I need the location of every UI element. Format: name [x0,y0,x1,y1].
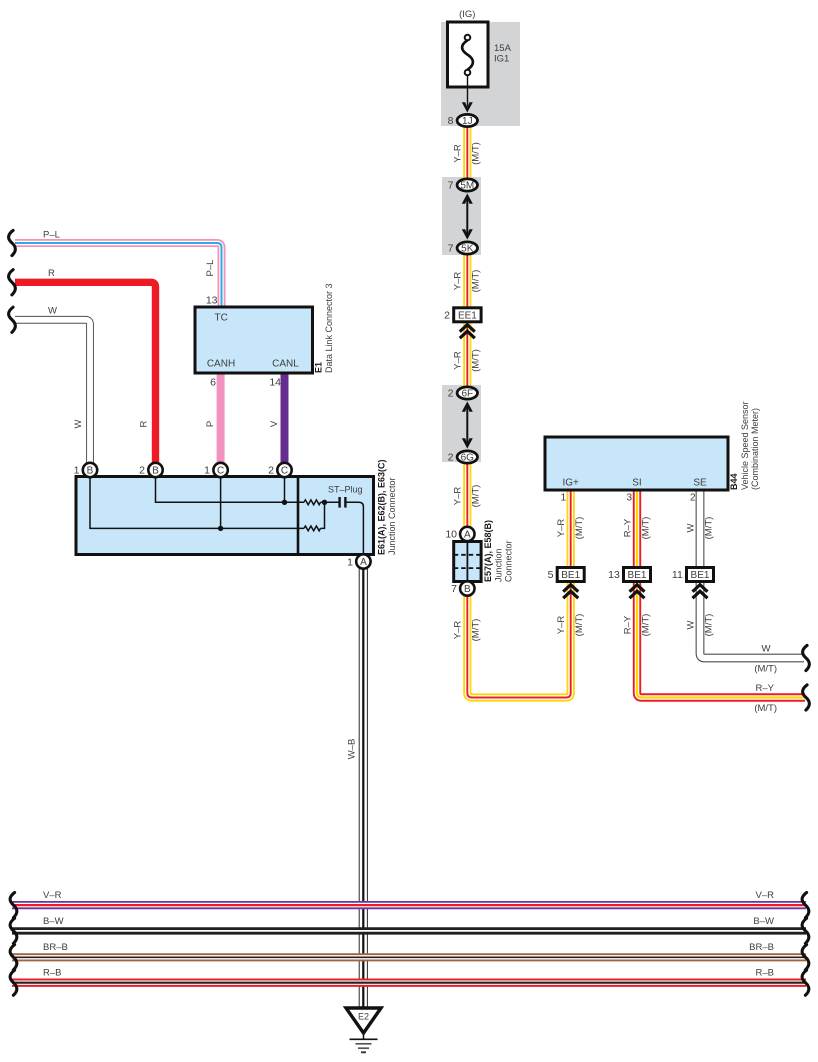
svg-text:(M/T): (M/T) [703,517,714,540]
svg-text:Vehicle Speed Sensor: Vehicle Speed Sensor [740,401,750,490]
svg-text:7: 7 [448,180,454,192]
label Y-R (M/T) seg3 [453,349,482,372]
internal divider [297,477,300,555]
connector EE1 [444,308,481,322]
pin circle B2 [139,463,163,477]
svg-text:(M/T): (M/T) [574,614,585,637]
internal wires (net B2/C2 and net B1/C1 to ST-plug) [90,477,363,554]
wire Y-R (junction B down, U-turn to BE1 5) [467,581,570,698]
svg-text:CANL: CANL [272,359,299,370]
svg-text:Junction: Junction [494,548,504,582]
svg-text:E2: E2 [358,1012,369,1022]
svg-text:P–L: P–L [205,260,216,277]
connector BE1 (5) [548,568,585,582]
svg-text:R–B: R–B [43,968,61,979]
svg-text:B: B [87,466,94,477]
svg-text:7: 7 [451,583,457,595]
svg-text:1: 1 [74,465,80,477]
pin circle A (junction bottom) [347,554,370,568]
resistor R2 [304,526,321,531]
label IG+ SI SE [562,478,707,489]
junction dot mid [322,500,327,505]
connector 5M [448,179,478,192]
chevron below EE1 [460,325,475,339]
label R-Y (M/T) right edge [754,683,777,714]
svg-text:5: 5 [548,569,554,581]
svg-text:B44: B44 [729,473,739,490]
bus labels right [749,890,774,979]
svg-text:R–Y: R–Y [622,518,633,537]
svg-text:2: 2 [139,465,145,477]
connector 6G [448,451,478,464]
svg-text:(M/T): (M/T) [754,703,777,714]
svg-text:IG+: IG+ [562,478,579,489]
connector 1J [448,114,478,127]
label Y-R (M/T) seg1 [453,142,482,165]
svg-text:B–W: B–W [753,916,774,927]
svg-text:ST–Plug: ST–Plug [328,485,363,495]
inter-connector arrows 6F-6G [462,401,473,448]
junction dot C2 [282,500,287,505]
shaded block (6F/6G) [442,385,481,462]
label Y-R (M/T) seg4 [453,485,482,508]
braces left bus [10,893,17,918]
svg-text:15A: 15A [494,43,512,54]
label W (M/T) right edge [754,644,777,675]
svg-text:Y–R: Y–R [453,272,464,291]
svg-text:13: 13 [608,569,620,581]
DLC3 box E1 [195,307,313,373]
label B44 Vehicle Speed Sensor (Combination Meter) [729,401,760,490]
svg-text:E57(A), E58(B): E57(A), E58(B) [483,520,493,582]
svg-text:V: V [269,420,280,427]
arrow into 1J [462,102,473,112]
wire R (left edge to junction B2) [15,282,156,463]
svg-text:1: 1 [347,557,353,569]
label E1 Data Link Connector 3 [314,283,335,373]
label W (M/T) below BE1 11 [685,614,714,637]
svg-text:6: 6 [210,377,216,389]
svg-text:8: 8 [448,115,454,127]
brace left P-L [9,230,16,255]
svg-text:(M/T): (M/T) [471,270,482,293]
svg-text:5K: 5K [461,244,474,255]
svg-text:A: A [360,557,367,568]
svg-text:W: W [762,644,771,655]
svg-text:IG1: IG1 [494,54,509,65]
svg-text:BE1: BE1 [628,570,647,581]
svg-text:BE1: BE1 [561,570,580,581]
wire W (left edge to junction B1) [15,320,90,463]
svg-text:13: 13 [206,295,218,307]
chevron below BE1 5 [563,585,578,599]
svg-text:P: P [205,421,216,427]
resistor R1 [304,500,321,505]
svg-text:CANH: CANH [207,359,235,370]
capacitor ST-plug [340,497,346,508]
label Y-R (M/T) under IG+ [556,517,585,540]
svg-text:A: A [464,530,471,541]
svg-text:W–B: W–B [347,739,358,760]
svg-text:R: R [48,268,55,279]
svg-text:11: 11 [672,569,683,581]
svg-text:W: W [685,523,696,532]
brace right W [803,645,810,670]
svg-text:(IG): (IG) [459,9,475,20]
svg-text:Junction Connector: Junction Connector [387,477,397,555]
wire Y-R (B44 IG+ to BE1 5) [567,490,575,597]
shaded relay block (fuse/1J) [441,22,520,126]
label Y-R (M/T) seg5 [453,619,482,642]
svg-text:(M/T): (M/T) [471,619,482,642]
svg-text:Y–R: Y–R [556,519,567,538]
bus wire R-B [12,979,806,987]
wire Y-R (1J to 5M) [463,127,471,180]
connector 5K [448,242,478,255]
pin circle C1 [204,463,228,477]
svg-text:Y–R: Y–R [453,351,464,370]
chevron below BE1 11 [693,585,708,599]
label TC CANH CANL [207,313,299,370]
svg-text:Y–R: Y–R [556,616,567,635]
label W (M/T) under SE [685,517,714,540]
svg-text:B: B [464,584,471,595]
svg-text:Data Link Connector 3: Data Link Connector 3 [324,283,334,373]
svg-text:R: R [139,420,150,427]
svg-text:W: W [685,620,696,629]
svg-text:BE1: BE1 [691,570,710,581]
wire R-Y (B44 SI to right edge) [637,490,805,698]
B44 vehicle speed sensor box [545,437,728,490]
svg-text:10: 10 [445,529,457,541]
shaded block (5M/5K) [442,177,481,255]
svg-text:3: 3 [626,493,632,504]
svg-text:(M/T): (M/T) [703,614,714,637]
chevron below BE1 13 [630,585,645,599]
svg-text:2: 2 [448,452,454,464]
svg-text:E1: E1 [314,362,324,373]
svg-text:2: 2 [448,388,454,400]
wire W (B44 SE to right edge) [700,490,804,658]
svg-text:(M/T): (M/T) [754,664,777,675]
brace left W [9,307,16,332]
ground E2 [346,1008,381,1052]
label E61(A), E62(B), E63(C) Junction Connector [377,459,398,555]
svg-text:2: 2 [690,493,696,504]
connector BE1 (13) [608,568,650,582]
svg-text:C: C [217,466,224,477]
junction dot C1 [218,526,223,531]
bus wire B-W [12,927,806,934]
svg-text:Y–R: Y–R [453,144,464,163]
svg-text:1: 1 [560,493,566,504]
svg-text:R–Y: R–Y [756,683,775,694]
svg-text:(M/T): (M/T) [471,349,482,372]
svg-text:(M/T): (M/T) [471,142,482,165]
wire P-L (left edge to DLC3 pin 13) [15,243,222,308]
svg-text:(M/T): (M/T) [640,517,651,540]
label R-Y (M/T) under SI [622,517,651,540]
svg-text:SE: SE [693,478,707,489]
connector BE1 (11) [672,568,714,582]
svg-text:(M/T): (M/T) [471,485,482,508]
svg-text:Connector: Connector [504,540,514,582]
svg-text:14: 14 [269,377,281,389]
wire V (DLC3 CANL to junction C2) [281,373,289,463]
wire W-B (junction A to ground E2) [359,568,368,1007]
svg-text:W: W [73,419,84,428]
svg-text:6F: 6F [461,389,473,400]
svg-text:W: W [48,306,57,317]
pin circle B1 [74,463,98,477]
brace left R [9,270,16,295]
pin circle C2 [268,463,292,477]
svg-text:R–Y: R–Y [622,615,633,634]
svg-text:TC: TC [215,313,228,324]
svg-text:1J: 1J [462,116,473,127]
pin numbers B44 [560,493,696,504]
brace right R-Y [803,685,810,710]
svg-text:(M/T): (M/T) [640,614,651,637]
svg-text:P–L: P–L [43,229,60,240]
svg-text:R–B: R–B [756,968,774,979]
wire Y-R (5K to EE1) [463,253,471,309]
svg-text:(Combination Meter): (Combination Meter) [750,408,760,490]
bus labels left [43,890,68,979]
svg-text:Y–R: Y–R [453,621,464,640]
label R-Y (M/T) below BE1 13 [622,614,651,637]
svg-text:2: 2 [268,465,274,477]
svg-text:C: C [281,466,288,477]
connector 6F [448,387,478,400]
svg-text:Y–R: Y–R [453,487,464,506]
inter-connector arrows 5M-5K [462,193,473,239]
wire P (DLC3 CANH to junction C1) [217,373,225,463]
junction connector E61/E62/E63 box [76,477,374,555]
svg-text:V–R: V–R [756,890,775,901]
svg-text:1: 1 [204,465,210,477]
bus wire BR-B [12,953,806,961]
svg-text:BR–B: BR–B [749,942,774,953]
svg-text:E61(A), E62(B), E63(C): E61(A), E62(B), E63(C) [377,459,387,555]
svg-text:2: 2 [444,310,450,322]
junction connector E57/E58 [445,527,481,596]
braces right bus [802,893,809,918]
svg-text:7: 7 [448,243,454,255]
label Y-R (M/T) seg2 [453,270,482,293]
bus wire V-R [12,901,806,909]
svg-text:5M: 5M [460,181,474,192]
wire Y-R (EE1 to 6F) [463,321,471,387]
svg-text:6G: 6G [461,453,475,464]
fuse 15A IG1 [448,22,489,107]
svg-text:V–R: V–R [43,890,62,901]
label E57(A), E58(B) Junction Connector [483,520,514,582]
svg-text:(M/T): (M/T) [574,517,585,540]
svg-text:EE1: EE1 [458,311,477,322]
label Y-R (M/T) below BE1 5 [556,614,585,637]
svg-text:B: B [152,466,159,477]
svg-text:BR–B: BR–B [43,942,68,953]
svg-text:B–W: B–W [43,916,64,927]
svg-text:SI: SI [632,478,641,489]
wire Y-R (6G to junction A) [463,463,471,529]
